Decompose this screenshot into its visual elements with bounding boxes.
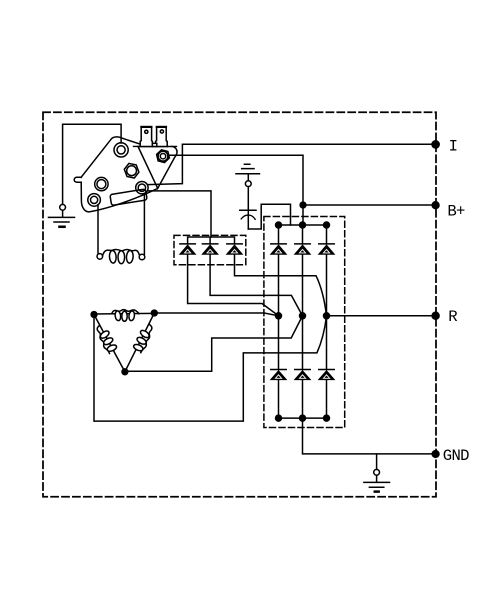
wire B+ node down to rectifier positive bus <box>302 205 304 225</box>
wire regulator circle D to I terminal <box>148 144 436 184</box>
delta right edge wire <box>125 313 154 372</box>
ground G2 symbol <box>364 482 390 491</box>
wire regulator top terminal to left ground <box>63 124 122 204</box>
negative bus dot 1 <box>276 415 282 421</box>
diode D9 (rectifier lower 3) <box>319 370 335 380</box>
regulator hex nut (center) <box>124 163 139 178</box>
negative bus dot 2 <box>300 415 306 421</box>
terminal I dot <box>432 141 439 148</box>
wire regulator circle D down to field coil <box>143 194 145 255</box>
dashed enclosure border <box>43 112 436 497</box>
rectifier positive bus wire <box>279 224 327 226</box>
regulator terminal circle B (left) <box>95 177 108 190</box>
svg-text:GND: GND <box>443 447 469 465</box>
diode D8 (rectifier lower 2) <box>295 370 311 380</box>
wire phase node 3 to R terminal <box>327 315 436 317</box>
wire regulator circle D to diode trio cathode bus <box>148 191 211 237</box>
diode D6 (rectifier upper 3) <box>319 244 335 254</box>
svg-text:R: R <box>448 308 457 326</box>
capacitor C1 curved plate <box>241 215 255 219</box>
rectifier dashed box <box>264 217 345 428</box>
diode D3 (trio) <box>227 244 243 254</box>
delta corner dot top-left <box>91 312 97 318</box>
phase node 2 dot <box>300 313 306 319</box>
wire negative bus to GND terminal <box>303 418 436 454</box>
diode trio cathode bus wire <box>188 237 235 244</box>
wire phase C (delta top-left) to node 3 <box>94 315 327 422</box>
svg-text:B+: B+ <box>447 203 465 221</box>
diode D2 (trio) <box>202 244 218 254</box>
rectifier column 1 wire <box>278 225 280 418</box>
positive bus dot 3 <box>324 222 330 228</box>
stator coil left (phase winding) <box>97 326 109 354</box>
negative bus dot 3 <box>324 415 330 421</box>
ground G1 (left) symbol <box>49 210 75 226</box>
connector blade terminal 1 <box>140 127 152 146</box>
delta corner dot top-right <box>151 310 157 316</box>
regulator terminal circle D (right, to field coil and diode trio) <box>136 182 148 194</box>
voltage regulator left mounting tab <box>74 177 81 182</box>
stator coil top (phase winding) <box>112 310 139 314</box>
voltage regulator inner rectangle detail <box>110 189 147 205</box>
stator coil right (phase winding) <box>141 325 152 353</box>
svg-text:I: I <box>449 138 458 156</box>
wire diode D3 anode to phase node 3 <box>235 254 327 316</box>
capacitor ground stem and connector circle <box>247 174 249 181</box>
field coil L1 <box>97 249 145 263</box>
wire B+ node to B+ terminal <box>303 204 436 206</box>
diode D7 (rectifier lower 1) <box>271 370 287 380</box>
rectifier column 3 wire <box>326 225 328 418</box>
wire capacitor to rectifier positive bus <box>248 204 290 229</box>
positive bus dot 2 <box>300 222 306 228</box>
ground G2 (bottom right) stem and connector circle <box>376 454 378 470</box>
wire regulator hex E to B+ terminal <box>168 155 303 205</box>
node B+ junction dot <box>300 202 306 208</box>
capacitor C1 flat plate <box>240 209 256 211</box>
diode D1 (trio) <box>180 244 196 254</box>
wire phase B (delta bottom) to node 2 <box>125 316 303 372</box>
connector center notch <box>152 143 156 146</box>
positive bus dot 1 <box>276 222 282 228</box>
stator delta winding <box>91 310 157 375</box>
wire diode D1 anode to phase node 1 <box>188 254 279 316</box>
wire regulator circle C down to field coil <box>97 205 99 253</box>
regulator terminal circle A (top, wire to I circuit) <box>114 143 128 157</box>
capacitor C1 lead <box>247 187 249 229</box>
connector blade terminal 2 <box>156 127 168 146</box>
diode D4 (rectifier upper 1) <box>271 244 287 254</box>
delta top edge wire <box>94 312 154 315</box>
blade 2 hole <box>160 130 163 133</box>
diode D5 (rectifier upper 2) <box>295 244 311 254</box>
delta corner dot bottom <box>122 369 128 375</box>
blade 1 hole <box>145 130 148 133</box>
diode trio dashed box <box>174 235 246 264</box>
voltage regulator body outline <box>81 137 158 212</box>
regulator hex terminal E (right, to B+ wire) <box>157 150 170 163</box>
capacitor ground symbol (inverted) <box>236 164 260 174</box>
rectifier negative bus wire <box>279 417 327 419</box>
ground G1 (left) connector circle <box>60 204 66 210</box>
terminal R dot <box>432 312 439 319</box>
connector housing (triangular plate) <box>138 147 177 189</box>
wire phase A (delta top-right) to node 1 <box>154 313 278 316</box>
phase node 1 dot <box>276 313 282 319</box>
phase node 3 dot <box>324 313 330 319</box>
terminal B+ dot <box>432 202 439 209</box>
connector base plate <box>134 145 177 147</box>
delta left edge wire <box>94 315 125 372</box>
regulator terminal circle C (bottom left, to field coil) <box>88 194 101 207</box>
wire diode D2 anode to phase node 2 <box>210 254 302 316</box>
rectifier column 2 wire <box>302 225 304 418</box>
terminal GND dot <box>432 451 439 458</box>
